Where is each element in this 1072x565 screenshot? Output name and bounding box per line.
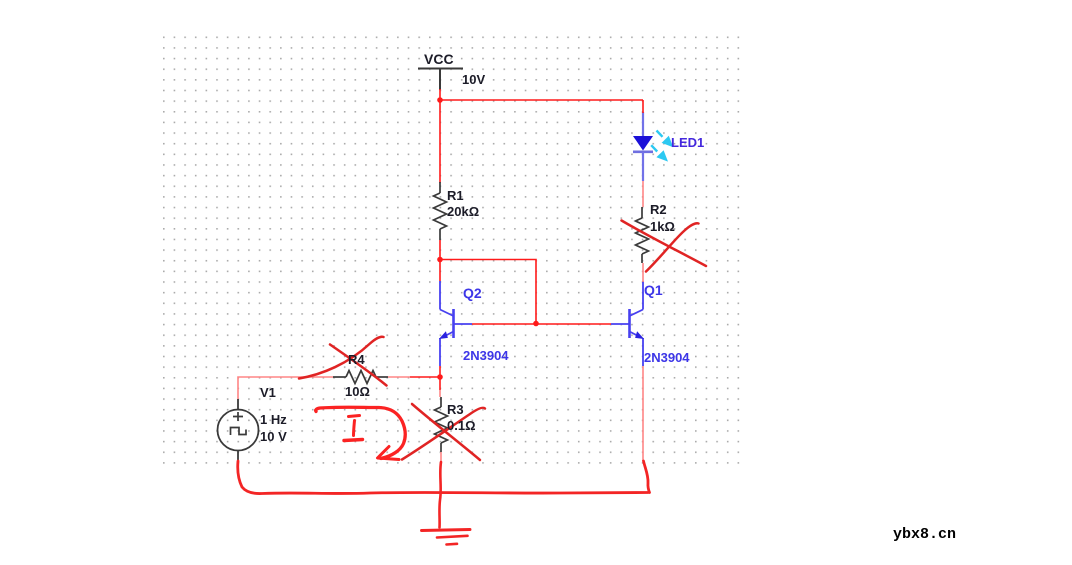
Q2 emitter arrow	[439, 331, 448, 339]
node base bus	[533, 321, 539, 327]
hand arrow head	[378, 447, 400, 460]
hand X over R3 stroke 1	[412, 404, 480, 460]
wire VCC to top rail junction	[439, 89, 441, 100]
hand-drawn drop from Q1 emitter	[644, 461, 650, 493]
hand X over R2 stroke 1	[646, 223, 699, 271]
node emitter/R3 junction	[437, 374, 443, 380]
LED1 light arrow 1	[657, 131, 674, 148]
transistor Q2 (mirrored NPN)	[440, 281, 472, 366]
wire top rail to LED	[642, 100, 644, 113]
hand X over R2 stroke 2	[622, 221, 707, 267]
resistor R3 0.1 Ohm	[435, 397, 448, 452]
LED1 diode triangle	[633, 136, 653, 151]
hand X over R4 stroke 1	[299, 337, 384, 379]
LED1 cathode bar	[633, 151, 653, 154]
label R2	[650, 202, 667, 217]
ground bar 2	[437, 536, 468, 538]
node R1 bottom	[437, 257, 443, 263]
VCC power symbol	[418, 69, 463, 91]
grid dots	[163, 36, 740, 464]
hand arrow loop	[316, 407, 406, 458]
wire V1 to R4 (highlighted pink)	[238, 377, 333, 399]
wire top rail horizontal	[440, 99, 643, 101]
wire R2 to Q1 collector (pink)	[642, 263, 644, 282]
wire Q1 emitter down (pink)	[642, 366, 644, 461]
wire node down to R3	[439, 377, 441, 390]
resistor R4 10 Ohm	[333, 371, 388, 384]
wire R3 bottom stub (pink)	[440, 452, 442, 462]
label 0.1	[447, 418, 476, 433]
label 2N3904 Q2	[463, 348, 509, 363]
hand-drawn bottom return wire	[238, 461, 648, 494]
label Q1	[644, 282, 663, 298]
hand X over R4 stroke 2	[330, 345, 387, 386]
label 1 Hz	[260, 412, 287, 427]
hand current label I stem	[354, 421, 355, 436]
LED1 lead top (blue)	[642, 112, 644, 136]
voltage source V1	[218, 399, 259, 462]
wire Q2 emitter to node	[439, 366, 441, 377]
label R3	[447, 402, 464, 417]
label Q2	[463, 285, 482, 301]
LED1 lead bottom (blue)	[642, 152, 644, 181]
wire top rail down to R1	[439, 100, 441, 183]
label 10 Ohm	[345, 384, 370, 399]
label V1	[260, 385, 276, 400]
Q1 emitter arrow	[635, 331, 644, 339]
resistor R2 1k	[636, 207, 649, 263]
label 10 V	[260, 429, 287, 444]
label R1	[447, 188, 464, 203]
ground bar 1	[422, 530, 471, 531]
label LED1	[671, 135, 704, 150]
hand X over R3 stroke 2	[402, 408, 485, 460]
label R4	[348, 352, 365, 367]
wire R1 bottom to node	[439, 240, 441, 260]
hand-drawn ground stem	[439, 462, 441, 528]
resistor R1 20k	[434, 182, 447, 240]
label 2N3904 Q1	[644, 350, 690, 365]
label 20k	[447, 204, 479, 219]
transistor Q1 (NPN)	[611, 281, 643, 366]
node junction VCC rail	[437, 97, 443, 103]
wire base bus Q2 to Q1	[472, 323, 611, 325]
watermark ybx8.cn	[893, 526, 956, 543]
wire R4 to emitter node (pink then red)	[388, 376, 410, 378]
label 1k	[650, 219, 675, 234]
hand current label I top bar	[349, 416, 360, 417]
wire node down to Q2 collector lead	[439, 260, 441, 282]
label VCC	[424, 51, 454, 67]
wire LED to R2 (pink)	[642, 181, 644, 207]
label 10V	[462, 72, 485, 87]
ground bar 3	[447, 542, 458, 545]
wire node to Q2 collector loop top	[440, 260, 536, 324]
hand current label I bottom bar	[344, 440, 363, 441]
LED1 light arrow 2	[651, 145, 668, 161]
